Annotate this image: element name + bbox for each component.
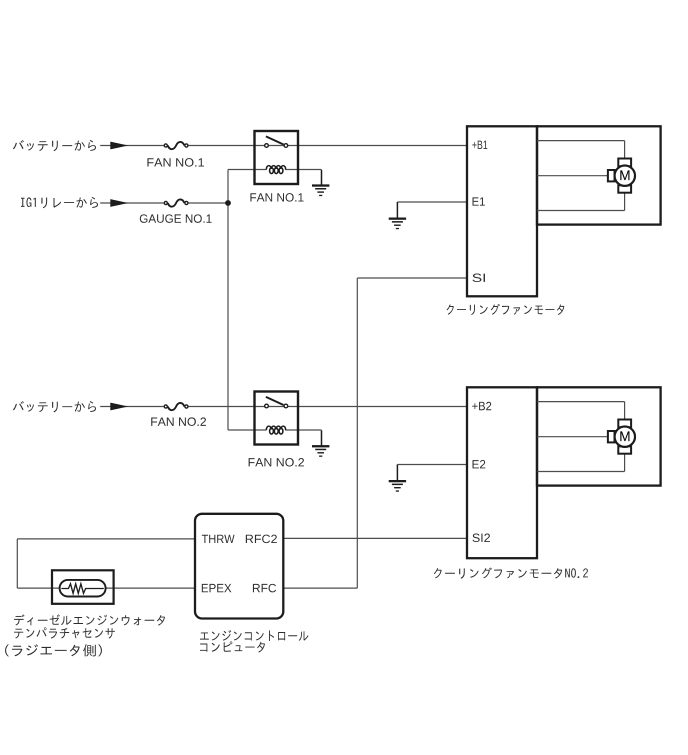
label pin +B1	[472, 141, 487, 149]
cooling fan motor 2 connector box	[467, 387, 537, 558]
fuse GAUGE NO.1	[164, 199, 188, 206]
motor M1 letter	[620, 170, 629, 180]
ground E1	[389, 218, 406, 230]
wire RFC2 to SI2	[283, 537, 467, 539]
wire motor1 armature mid	[537, 175, 608, 177]
cooling fan motor 1 housing box	[537, 126, 661, 224]
wire battery1 feed to +B1	[100, 145, 166, 147]
label pin E2	[473, 460, 486, 468]
junction node IG1/coil bus	[225, 200, 231, 206]
label fuse value GAUGE NO.1	[140, 214, 212, 223]
engine control computer U1 box	[195, 514, 283, 619]
relay FAN NO.1 switch contact	[265, 136, 288, 147]
wire IG1 relay feed	[100, 202, 166, 204]
label battery 1	[13, 140, 96, 151]
cooling fan motor 1 connector box	[467, 126, 537, 296]
label sensor name line2	[14, 627, 115, 638]
label cooling fan motor NO.2	[434, 568, 588, 579]
motor M1 symbol	[608, 159, 635, 193]
relay FAN NO.1 coil	[266, 166, 286, 174]
fuse FAN NO.1	[164, 142, 188, 149]
wire motor2 brush feed top	[537, 401, 625, 403]
water temperature sensor box	[52, 570, 114, 604]
label relay name FAN NO.1	[250, 193, 303, 202]
wire motor1 vertical to bottom brush	[624, 193, 626, 211]
wire junction vertical bus	[227, 170, 229, 431]
ground relay1 coil	[312, 184, 329, 196]
label pin SI2	[472, 534, 490, 543]
label fuse value FAN NO.2	[151, 417, 206, 426]
wire motor1 brush feed top	[537, 140, 625, 142]
relay FAN NO.2 box	[255, 392, 299, 445]
sensor thermistor resistor element	[61, 584, 103, 594]
arrow battery2 input	[110, 403, 128, 411]
wire to relay1 coil	[228, 169, 266, 171]
relay FAN NO.1 box	[255, 131, 299, 184]
relay FAN NO.2 switch contact	[265, 397, 288, 408]
wire motor1 vertical to top brush	[624, 141, 626, 159]
label pin E1	[473, 197, 485, 205]
wire RFC horizontal	[283, 587, 357, 589]
wire to relay2 coil	[228, 429, 266, 431]
wire motor1 brush feed bottom	[537, 210, 625, 212]
label pin RFC2	[246, 535, 277, 544]
label IG1 relay	[21, 197, 98, 208]
wire motor2 vertical to top brush	[624, 402, 626, 420]
wire THRW loop top	[17, 538, 195, 540]
label pin THRW	[202, 535, 235, 543]
label pin +B2	[472, 402, 491, 410]
ground relay2 coil	[312, 445, 329, 457]
motor M2 letter	[620, 431, 629, 441]
wire sensor row to EPEX	[17, 587, 195, 589]
arrow IG1 input	[110, 199, 128, 207]
cooling fan motor 2 housing box	[537, 387, 661, 485]
label pin SI	[472, 274, 485, 283]
label pin RFC	[253, 584, 276, 593]
wire THRW loop vertical	[16, 539, 18, 588]
fuse FAN NO.2	[164, 403, 188, 410]
label fuse value FAN NO.1	[147, 158, 204, 167]
label ECU name line2	[200, 641, 265, 652]
wire RFC vertical riser	[356, 278, 358, 588]
wire motor2 brush feed bottom	[537, 471, 625, 473]
motor M2 symbol	[608, 420, 635, 454]
wire E1 to ground	[397, 201, 467, 203]
label cooling fan motor	[447, 304, 565, 315]
wire motor2 vertical to bottom brush	[624, 454, 626, 472]
label battery 2	[13, 401, 96, 412]
wire SI to RFC	[357, 277, 467, 279]
arrow battery1 input	[110, 142, 128, 150]
wire relay1 coil to ground	[285, 169, 321, 171]
label sensor name line3	[5, 644, 102, 656]
wire motor2 armature mid	[537, 436, 608, 438]
label relay name FAN NO.2	[249, 458, 304, 467]
sensor thermistor capsule	[60, 580, 106, 597]
wire relay2 coil to ground	[285, 429, 321, 431]
ground E2	[389, 480, 406, 492]
wire E2 to ground	[397, 464, 467, 466]
label sensor name line1	[14, 614, 165, 625]
relay FAN NO.2 coil	[266, 426, 286, 434]
label pin EPEX	[202, 584, 232, 592]
label ECU name line1	[200, 630, 308, 641]
wire battery2 feed to +B2	[100, 406, 166, 408]
